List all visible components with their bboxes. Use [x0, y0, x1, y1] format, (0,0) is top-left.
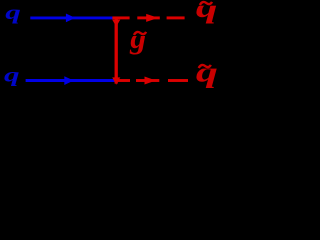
arrowhead on bottom quark line	[64, 76, 73, 85]
arrowhead on bottom squark line	[145, 77, 156, 85]
label q (top-left incoming quark)	[5, 2, 21, 24]
wire: outgoing squark dashed line (bottom)	[116, 79, 130, 82]
arrowhead on top squark line	[146, 14, 158, 22]
wire: incoming quark line (top)	[30, 16, 113, 19]
svg-text:q: q	[4, 64, 20, 86]
svg-text:q: q	[5, 2, 21, 24]
label q (bottom-left incoming quark)	[4, 64, 20, 86]
wire: outgoing squark dashed line (top)	[112, 16, 129, 19]
arrowhead (down) on gluino line below top vertex	[112, 20, 120, 27]
arrowhead on top quark line	[66, 14, 75, 23]
Feynman diagram: q q -> squark squark via t-channel gluino	[0, 0, 223, 93]
arrowhead (down) on gluino line at bottom vertex	[112, 77, 120, 84]
label squark q-tilde (top-right)	[196, 0, 218, 24]
svg-text:g: g	[129, 20, 146, 54]
wire: incoming quark line (bottom)	[26, 79, 115, 82]
propagator: t-channel gluino line (vertical)	[115, 17, 118, 84]
label squark q-tilde (bottom-right)	[196, 55, 218, 88]
label gluino g-tilde	[129, 20, 146, 54]
